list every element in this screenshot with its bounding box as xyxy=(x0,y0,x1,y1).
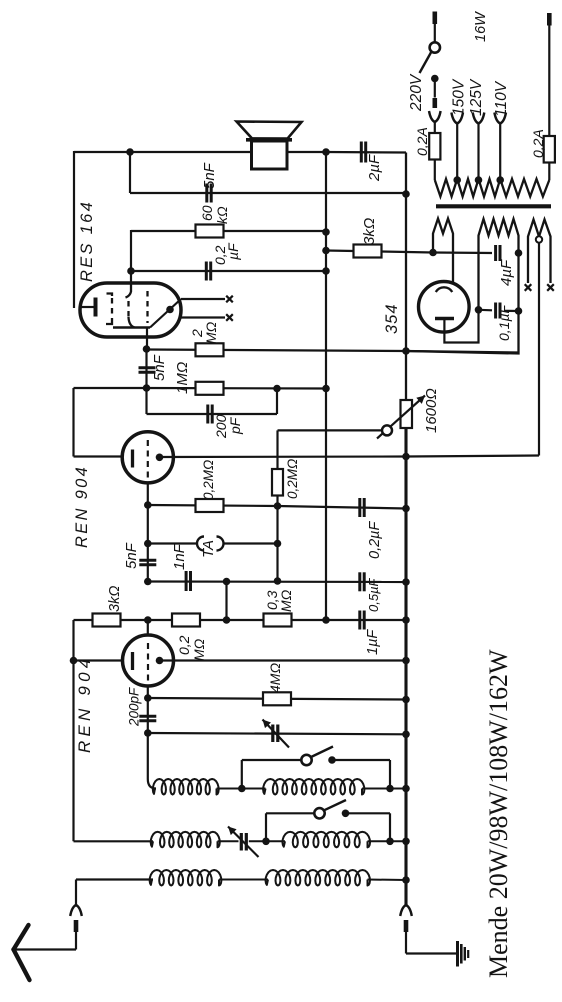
switch1 left leg xyxy=(241,760,243,789)
svg-text:3kΩ: 3kΩ xyxy=(107,586,123,612)
capacitor 0.5uF xyxy=(358,572,361,591)
wire TA to riser xyxy=(223,542,278,544)
wire tube2 cathode lead xyxy=(74,659,131,661)
svg-text:0,5µF: 0,5µF xyxy=(366,577,381,612)
tube2 anode dot xyxy=(156,657,164,665)
svg-text:0,2µF: 0,2µF xyxy=(367,520,383,559)
coil B (grid coil 2) xyxy=(263,779,364,795)
ground symbol xyxy=(456,941,459,967)
svg-text:4MΩ: 4MΩ xyxy=(267,663,283,693)
tap socket 125V xyxy=(473,113,485,124)
wire 0.2M grid line xyxy=(148,505,278,506)
svg-text:1µF: 1µF xyxy=(365,629,381,655)
wire into coil A xyxy=(148,733,156,789)
switch1 right wire xyxy=(332,759,390,761)
wire 0.2uF line to bus xyxy=(278,506,407,509)
node coilB/switch1 xyxy=(386,785,394,793)
mains switch contact xyxy=(431,75,439,83)
svg-text:0,2A: 0,2A xyxy=(530,129,546,158)
node 1M/200pF xyxy=(273,385,281,393)
secondary winding rectifier filament xyxy=(406,219,519,354)
svg-text:5nF: 5nF xyxy=(123,542,140,569)
node 0.2uF on bus406 xyxy=(402,505,410,513)
mains plug pin right xyxy=(547,13,552,26)
wire up to winding3 tap xyxy=(538,241,540,456)
node grid/0.2M xyxy=(144,501,152,509)
RES164 grid 2 (dashed with curls) xyxy=(126,283,132,298)
wire 4uF line xyxy=(433,251,492,254)
tube1 cathode bar xyxy=(131,450,134,468)
resistor 1 MOhm xyxy=(196,382,224,395)
wire down left of tube1 xyxy=(72,388,74,457)
node grid2/4M xyxy=(144,694,152,702)
switch2 left leg xyxy=(265,813,267,841)
resistor 0.2 MOhm (grid) xyxy=(196,499,224,512)
svg-text:200pF: 200pF xyxy=(127,687,142,727)
svg-text:125V: 125V xyxy=(468,78,485,116)
svg-text:MΩ: MΩ xyxy=(278,589,294,612)
svg-text:4µF: 4µF xyxy=(498,259,515,286)
TA pickup jack xyxy=(197,537,204,551)
speaker xyxy=(237,122,302,139)
tube1 anode dot xyxy=(156,454,164,462)
capacitor 4uF xyxy=(494,245,497,261)
earth jack socket xyxy=(400,905,412,916)
svg-text:110V: 110V xyxy=(493,80,510,117)
wire socket to fuse xyxy=(434,122,436,134)
capacitor 5nF (output) xyxy=(205,184,208,203)
grid stem with 5nF xyxy=(147,505,149,582)
RES164 grid 1 (dashed bracket) xyxy=(107,294,113,297)
capacitor 1uF xyxy=(358,611,361,630)
variable capacitor (trimmer) 1 xyxy=(271,725,274,743)
secondary winding HT xyxy=(433,219,453,291)
switch1 lever xyxy=(310,747,333,758)
link wire down xyxy=(225,582,227,621)
node 3k on bus326 xyxy=(322,247,330,255)
svg-text:kΩ: kΩ xyxy=(214,206,230,224)
svg-text:354: 354 xyxy=(383,303,401,334)
trimmer2 arrow xyxy=(228,827,259,858)
stub to x-terminal 2 xyxy=(181,316,225,318)
wire 1M line xyxy=(147,387,327,390)
node winding2 / 0.1uF / filament xyxy=(475,306,483,314)
svg-text:REN 904: REN 904 xyxy=(73,465,91,548)
mains switch pivot xyxy=(430,42,440,52)
switch1 left wire xyxy=(242,759,302,761)
coil A (grid coil 1) xyxy=(153,779,219,795)
svg-text:0,2MΩ: 0,2MΩ xyxy=(201,460,216,500)
svg-text:150V: 150V xyxy=(451,78,468,116)
wire coil D to bus xyxy=(368,840,407,842)
earth jack pin xyxy=(404,920,409,932)
capacitor 200pF (tube2) xyxy=(139,715,156,718)
fuse 0.2A right xyxy=(544,136,555,163)
svg-text:RES 164: RES 164 xyxy=(78,200,96,282)
tap socket 110V xyxy=(494,113,506,124)
354 filament bar xyxy=(435,317,454,321)
switch2 left wire xyxy=(266,812,315,814)
svg-text:0,2: 0,2 xyxy=(176,635,192,655)
wire tube1 cathode lead xyxy=(74,455,131,457)
wire coil B to bus xyxy=(362,788,406,790)
earth wire right xyxy=(406,952,458,954)
wire right pin to fuse xyxy=(548,26,550,137)
coil F (antenna coil 2) xyxy=(266,870,370,886)
tube2 grid stem bottom xyxy=(147,686,149,698)
tube REN904 no.1 xyxy=(122,432,173,483)
switch2 right leg xyxy=(389,813,391,841)
variable capacitor (trimmer) 2 xyxy=(240,833,243,851)
resistor 3 kOhm (bottom) xyxy=(93,614,121,627)
node grid2/trimmer line xyxy=(144,729,152,737)
RES164 grid 3 (dashed) xyxy=(146,291,148,323)
wire between coils A-B xyxy=(217,788,266,790)
tap wire 150V xyxy=(456,123,458,180)
wire pin to switch xyxy=(434,24,436,43)
bus 326 (HT minus rail) xyxy=(325,152,327,620)
wire fuse to primary xyxy=(434,160,436,181)
riser wire lower xyxy=(276,496,278,582)
tube RES164 envelope xyxy=(80,283,181,337)
switch2 contact dot xyxy=(342,810,350,818)
RES164 anode plate bar xyxy=(113,326,150,328)
svg-text:5nF: 5nF xyxy=(201,162,218,189)
tube2 grid dashed xyxy=(147,643,149,684)
wire left drop to RES164 filament xyxy=(73,151,75,308)
node anode line on bus406 xyxy=(402,453,410,461)
svg-text:REN 904: REN 904 xyxy=(75,655,94,753)
wire to 2uF xyxy=(326,151,406,154)
node winding2 right / 0.1uF xyxy=(515,307,523,315)
svg-text:0,2MΩ: 0,2MΩ xyxy=(285,459,300,499)
svg-text:60: 60 xyxy=(199,205,215,221)
tap plug pin 220V xyxy=(432,98,437,108)
left rail xyxy=(72,620,74,841)
antenna wire left xyxy=(14,948,76,950)
354 anode dome xyxy=(436,287,452,292)
node tap 150V on primary xyxy=(453,176,461,184)
tap socket 220V xyxy=(429,111,441,122)
svg-text:0,2A: 0,2A xyxy=(414,127,430,156)
bus 406 upper xyxy=(405,153,407,401)
node antenna line on bus406 xyxy=(402,876,410,884)
wire 4M line xyxy=(148,698,406,700)
wire top speaker line xyxy=(74,151,326,153)
capacitor 5nF (grid) xyxy=(139,559,156,562)
node 0.2uF to bus326 xyxy=(322,267,330,275)
secondary winding heaters xyxy=(528,220,551,284)
tap socket 150V xyxy=(451,113,463,124)
wire coil F to bus xyxy=(368,879,407,882)
node 1M to bus326 xyxy=(322,385,330,393)
resistor 2 MOhm xyxy=(196,343,224,356)
node stem/2M line xyxy=(143,345,151,353)
wire bus326 to 3k xyxy=(326,249,354,252)
wire 200pF up to 1M node xyxy=(276,389,278,415)
resistor 3 kOhm (top) xyxy=(354,245,382,258)
capacitor 1nF xyxy=(185,571,188,591)
wire 2M line xyxy=(147,350,407,352)
node 1uF on bus406 xyxy=(402,616,410,624)
switch1 right leg xyxy=(389,760,391,789)
x heater terminal 2 xyxy=(547,284,554,291)
node coilD/switch2 xyxy=(386,838,394,846)
wire 1nF-0.5uF line xyxy=(148,580,406,583)
stub to x-terminal 1 xyxy=(181,298,225,300)
wire 0.1uF line xyxy=(479,309,493,312)
tube1 grid stem xyxy=(147,483,149,506)
node anode2 on bus406 xyxy=(402,657,410,665)
wire to TA jack xyxy=(148,542,198,544)
svg-text:µF: µF xyxy=(225,242,241,260)
node riser/1nF line xyxy=(274,577,282,585)
capacitor 0.1uF xyxy=(494,303,497,319)
wire left to cathode loop xyxy=(74,387,147,389)
wire 5nF line xyxy=(130,192,406,194)
node 1nF/link xyxy=(223,578,231,586)
wire coil C to trimmer2 xyxy=(218,840,239,842)
wire 3k-0.3M-1uF line xyxy=(74,619,407,621)
stem to 200pF line xyxy=(145,388,147,414)
fuse 0.2A left xyxy=(429,133,440,160)
wire tube2 anode line xyxy=(160,659,407,661)
antenna wire down xyxy=(75,932,77,950)
resistor 4 MOhm xyxy=(263,692,291,705)
svg-text:pF: pF xyxy=(227,416,243,435)
svg-text:1600Ω: 1600Ω xyxy=(423,388,440,433)
switch2 right wire xyxy=(346,812,391,814)
node grid/1nF xyxy=(144,578,152,586)
RES164 anode dot xyxy=(166,306,174,314)
node 5nF to bus xyxy=(402,190,410,198)
x terminal 1 xyxy=(226,296,233,303)
node coil line on bus406 xyxy=(402,785,410,793)
wire antenna to coil E xyxy=(76,878,153,880)
node trimmer1 on bus406 xyxy=(402,731,410,739)
node grid/TA line xyxy=(144,540,152,548)
node riser/TA xyxy=(274,540,282,548)
tap wire 110V xyxy=(499,123,501,180)
node coil tap xyxy=(238,785,246,793)
node 0.5uF on bus406 xyxy=(402,578,410,586)
svg-text:1nF: 1nF xyxy=(171,543,188,570)
capacitor 200pF (tube1) xyxy=(206,405,209,424)
mains plug pin left xyxy=(432,12,437,25)
node 60k to bus326 xyxy=(322,228,330,236)
wire fuse to primary right xyxy=(548,163,550,181)
mains switch lever xyxy=(420,52,432,74)
node grid riser / 0.2uF xyxy=(127,267,135,275)
resistor 0.2 MOhm (vertical) xyxy=(272,469,283,496)
x heater terminal 1 xyxy=(525,284,532,291)
earth wire down xyxy=(405,932,407,954)
riser wire upper xyxy=(276,430,278,469)
wire between coils E-F xyxy=(219,879,268,881)
wire drop to 5nF line xyxy=(129,152,131,193)
node bus326 bottom end xyxy=(322,616,330,624)
switch1 contact dot xyxy=(328,756,336,764)
tube1 grid dashed xyxy=(147,440,149,481)
node junction top-left xyxy=(126,148,134,156)
svg-text:MΩ: MΩ xyxy=(203,321,219,344)
stem with 5nF xyxy=(145,349,147,388)
capacitor 2uF xyxy=(360,142,363,163)
wire trimmer1 line xyxy=(148,733,406,734)
wire wiper line xyxy=(278,429,383,431)
node HT winding / 4uF line xyxy=(429,249,437,257)
tube2 grid stem top xyxy=(147,620,149,636)
antenna symbol xyxy=(14,925,29,950)
potentiometer 1600 Ohm body xyxy=(401,400,413,428)
resistor 0.3 MOhm xyxy=(264,614,292,627)
capacitor 0.2uF (anode) xyxy=(358,498,361,517)
354 filament return xyxy=(444,310,478,343)
RES164 bottom stem xyxy=(146,328,148,350)
node grid2 top xyxy=(144,616,152,624)
node band2 on bus406 xyxy=(402,838,410,846)
switch2 pivot xyxy=(314,808,324,818)
potentiometer arrow xyxy=(377,396,425,439)
RES164 filament lead xyxy=(81,306,94,308)
wire switch to tap plug xyxy=(434,79,436,98)
switch2 lever xyxy=(323,800,346,811)
svg-text:220V: 220V xyxy=(408,73,425,112)
antenna jack pin xyxy=(74,920,79,932)
RES164 anode lead diag xyxy=(150,299,181,328)
wire RES164 grid riser xyxy=(130,230,132,283)
x terminal 2 xyxy=(226,314,233,321)
coil C xyxy=(151,832,220,848)
svg-text:2µF: 2µF xyxy=(366,154,383,182)
RES164 filament bar xyxy=(94,298,98,317)
coil E (antenna coil 1) xyxy=(150,870,222,886)
wire tube1 anode line xyxy=(160,455,407,458)
tube2 cathode bar xyxy=(131,652,134,670)
svg-text:MΩ: MΩ xyxy=(191,638,207,661)
antenna jack socket xyxy=(70,905,82,916)
grid2 stem with 200pF xyxy=(147,698,149,733)
tap wire 125V xyxy=(477,123,479,180)
wire left rail to coil C xyxy=(74,840,154,842)
node link/0.3M xyxy=(223,616,231,624)
transformer primary winding xyxy=(435,179,550,197)
bus 406 lower (chassis rail) xyxy=(404,428,407,905)
resistor 60 kOhm xyxy=(196,225,224,238)
svg-text:TA: TA xyxy=(200,540,217,558)
node 4uF / B+ xyxy=(515,249,523,257)
wiper open contact xyxy=(382,425,392,435)
node tap 110V on primary xyxy=(496,176,504,184)
wire 3k to HT winding xyxy=(381,252,433,253)
svg-text:16W: 16W xyxy=(473,11,489,42)
tube 354 rectifier xyxy=(419,282,470,333)
node tap 125V on primary xyxy=(475,176,483,184)
node 1M junction xyxy=(143,384,151,392)
node 4M on bus406 xyxy=(402,696,410,704)
svg-text:Mende 20W/98W/108W/162W: Mende 20W/98W/108W/162W xyxy=(484,649,513,978)
node rail/tube2 cathode xyxy=(70,657,78,665)
tube REN904 no.2 xyxy=(123,635,174,686)
winding3 tap circle xyxy=(536,236,542,242)
node trimmer/switch2 xyxy=(262,838,270,846)
trimmer1 arrow xyxy=(263,720,290,748)
node bus326 top xyxy=(322,148,330,156)
coil D xyxy=(282,832,370,848)
svg-text:0,1µF: 0,1µF xyxy=(496,303,512,341)
resistor 0.2 MOhm (tube2 grid) xyxy=(172,614,200,627)
wire anode line to heater winding tap xyxy=(406,456,539,457)
svg-text:5nF: 5nF xyxy=(151,354,168,381)
wire 60k line xyxy=(131,230,326,232)
wire 200pF line xyxy=(147,413,278,415)
transformer core xyxy=(436,204,551,208)
node 0.2M/riser xyxy=(274,502,282,510)
node 2M line to bus406 xyxy=(402,347,410,355)
svg-text:3kΩ: 3kΩ xyxy=(361,218,378,245)
antenna jack riser xyxy=(75,880,77,906)
wire trimmer2 to coil D xyxy=(249,840,285,842)
capacitor 0.2uF (RES164) xyxy=(205,262,208,281)
svg-text:1MΩ: 1MΩ xyxy=(174,362,191,394)
capacitor 5nF (coupling) xyxy=(139,366,156,369)
wire 0.2uF line xyxy=(131,270,326,272)
switch1 pivot xyxy=(301,755,311,765)
wire to rectifier B+ xyxy=(406,351,519,353)
